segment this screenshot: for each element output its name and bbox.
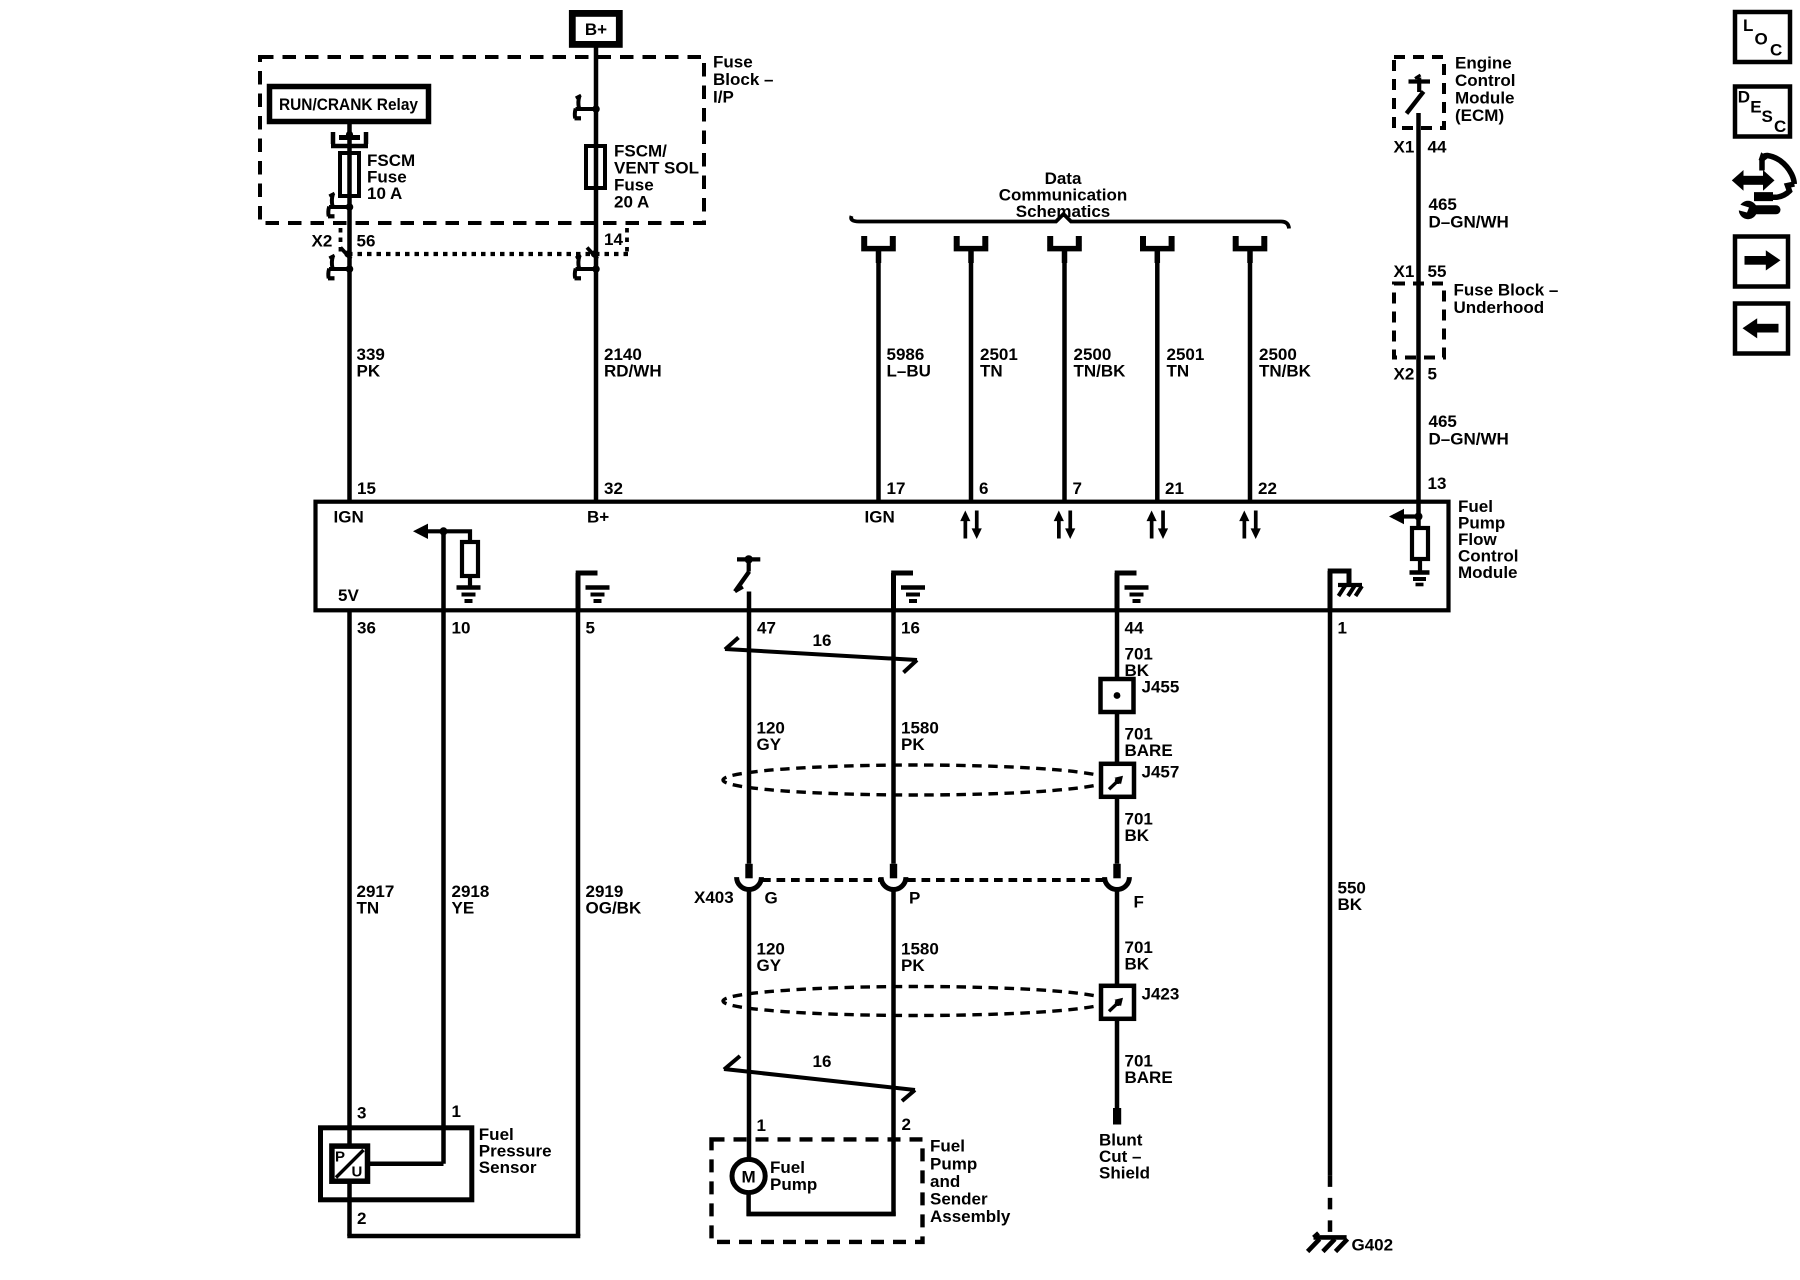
updown arrows pin 21 [1147,511,1169,540]
svg-text:P: P [335,1149,345,1166]
svg-text:BK: BK [1125,826,1150,845]
X403 connector F [1105,864,1130,890]
ground G402 [1308,1233,1348,1252]
svg-text:X2: X2 [312,232,333,251]
svg-text:Module: Module [1455,88,1515,107]
svg-text:44: 44 [1125,618,1144,637]
svg-text:P: P [909,889,920,908]
svg-text:M: M [742,1168,756,1187]
svg-text:6: 6 [979,479,988,498]
svg-text:S: S [1762,107,1773,126]
twisted pair ellipse (lower) [723,987,1108,1016]
pump internal bottom wire [747,1212,896,1217]
svg-text:X403: X403 [694,888,734,907]
svg-text:O: O [1755,30,1768,49]
svg-text:C: C [1774,117,1786,136]
svg-text:17: 17 [887,479,906,498]
svg-text:G402: G402 [1352,1236,1394,1255]
next arrow [1745,250,1781,270]
svg-text:Sender: Sender [930,1190,988,1209]
svg-text:F: F [1134,892,1144,911]
svg-text:J455: J455 [1142,678,1180,697]
svg-text:Shield: Shield [1099,1163,1150,1182]
svg-text:E: E [1750,97,1761,116]
wire 2501 TN (pin 6) [969,260,974,500]
internal pin 13 branch: wire + arrow + resistor + ground [1389,500,1423,528]
svg-text:1: 1 [1338,618,1347,637]
internal resistor (pin 13 branch) [1412,528,1428,559]
svg-text:and: and [930,1172,960,1191]
wire 701 BK (J457 to X403 F) [1115,797,1120,864]
svg-text:BARE: BARE [1125,741,1173,760]
wire 465 D-GN/WH (ECM to X1 55) [1416,113,1421,283]
svg-text:X1: X1 [1394,262,1415,281]
resistor stub to ground [1418,559,1422,571]
svg-text:PK: PK [357,362,381,381]
svg-text:(ECM): (ECM) [1455,106,1504,125]
LOC nav box [1735,12,1790,62]
internal ground pin 44 [1115,573,1137,611]
wire 550 BK dashed tail [1328,1175,1333,1232]
svg-text:TN: TN [357,899,380,918]
DESC letters [1738,88,1786,136]
ground (pin 13 branch) [1410,573,1430,585]
internal resistor (5V branch) [462,542,478,576]
svg-text:16: 16 [901,618,920,637]
data connector cup 3 [1047,236,1082,263]
terminal slash+hook wire A at X2 [341,248,352,260]
ECM internal switch [1407,75,1431,114]
svg-text:C: C [1770,41,1782,60]
svg-text:465: 465 [1429,412,1457,431]
X403 connector P [881,864,906,890]
svg-text:YE: YE [452,899,475,918]
svg-text:GY: GY [757,956,782,975]
wire 701 BK lower (X403 F to J423) [1115,891,1120,989]
resistor to ground stub [468,576,472,586]
pin 14 vertical dotted tick [625,228,629,253]
wire 2501 TN (pin 21) [1155,260,1160,500]
svg-text:16: 16 [813,631,832,650]
sensor pin 2 wire below P/U [347,1181,352,1236]
svg-text:10: 10 [452,618,471,637]
internal 5V reference branch: arrow + wire [413,524,470,611]
terminal hook below FSCM fuse [328,193,353,216]
svg-text:J457: J457 [1142,763,1180,782]
svg-text:44: 44 [1428,138,1447,157]
svg-text:RD/WH: RD/WH [604,362,662,381]
crossover 16 (lower) [724,1056,915,1101]
X2 vertical dotted tick [339,228,343,253]
pump motor to bottom wire [746,1193,751,1217]
relay contact cup [331,131,368,146]
svg-text:GY: GY [757,735,782,754]
svg-text:5: 5 [586,618,595,637]
data connector cup 4 [1140,236,1175,263]
svg-text:55: 55 [1428,262,1447,281]
prev arrow nav box [1735,304,1788,354]
wire 2140 RD/WH vertical (B+ to pin 32) [594,44,599,500]
svg-text:Fuse Block –: Fuse Block – [1454,281,1559,300]
next arrow nav box [1735,237,1788,287]
terminal slash+hook wire D at pin 14 [587,248,598,260]
svg-text:Pump: Pump [930,1154,977,1173]
svg-text:3: 3 [357,1103,366,1122]
shield splice J423 [1101,986,1134,1019]
connector X2 dotted line [348,252,628,256]
svg-text:TN: TN [980,362,1003,381]
svg-text:TN/BK: TN/BK [1259,362,1312,381]
wire 2918 YE (pin 10 to sensor pin 1) [441,611,446,1164]
wire 465 through underhood box [1416,283,1421,500]
ECM dashed box [1394,57,1444,128]
svg-text:RUN/CRANK Relay: RUN/CRANK Relay [279,95,418,114]
svg-text:20 A: 20 A [614,192,649,211]
svg-text:D: D [1738,88,1750,107]
wire 2500 TN/BK (pin 22) [1248,260,1253,500]
svg-text:2: 2 [902,1115,911,1134]
svg-text:Engine: Engine [1455,53,1512,72]
svg-text:15: 15 [357,479,376,498]
fuel pump motor M [732,1159,765,1192]
diagnostic jump icon [1732,152,1795,219]
wire 2919 OG/BK (pin 5 to sensor pin 2) [576,611,581,1236]
ground (5V branch) [457,588,481,602]
data connector cup 2 [954,236,989,263]
svg-text:I/P: I/P [713,88,734,107]
svg-text:5: 5 [1428,364,1437,383]
svg-text:B+: B+ [587,508,609,527]
svg-text:PK: PK [901,735,925,754]
sensor internal wire (pin 1 to P/U) [368,1162,444,1167]
svg-text:1: 1 [757,1116,766,1135]
data connector cup 1 [861,236,896,263]
internal ground pin 16 [891,573,913,611]
wire 2917 TN (pin 36 to sensor pin 3) [347,611,352,1146]
svg-text:TN: TN [1167,362,1190,381]
wire 701 BK (pin 44 to J455) [1115,611,1120,679]
prev arrow [1743,318,1779,338]
brace [851,214,1289,229]
svg-text:Block –: Block – [713,70,773,89]
svg-text:Schematics: Schematics [1016,202,1111,221]
svg-text:X1: X1 [1394,138,1415,157]
X403 connector G [737,864,762,890]
Fuel Pressure Sensor box [321,1128,472,1200]
internal ground pin 5 [576,573,598,611]
wire 2500 TN/BK (pin 7) [1062,260,1067,500]
svg-text:PK: PK [901,956,925,975]
updown arrows pin 6 [960,511,982,540]
svg-text:TN/BK: TN/BK [1074,362,1127,381]
svg-text:14: 14 [604,230,623,249]
svg-text:Assembly: Assembly [930,1207,1011,1226]
svg-text:B+: B+ [585,20,607,39]
svg-text:47: 47 [757,618,776,637]
svg-text:Sensor: Sensor [479,1158,537,1177]
svg-text:U: U [352,1164,363,1181]
RUN/CRANK Relay box [270,87,429,122]
wire 701 BARE (J423 to blunt cut) [1115,1019,1120,1108]
svg-text:32: 32 [604,479,623,498]
updown arrows pin 22 [1239,511,1261,540]
wire 120 GY lower (X403 G to pump 1) [747,891,752,1161]
svg-text:D–GN/WH: D–GN/WH [1429,213,1509,232]
LOC letters [1743,16,1782,59]
Fuel Pump Flow Control Module box [316,502,1449,611]
DESC nav box [1735,87,1790,137]
svg-text:L: L [1743,16,1753,35]
B+ power feed box [572,13,619,44]
twisted pair ellipse (upper) [723,765,1108,795]
svg-text:Module: Module [1458,563,1518,582]
Fuse Block I/P dashed box [260,57,704,223]
wire 5986 L-BU [876,260,881,500]
svg-text:16: 16 [813,1052,832,1071]
blunt cut terminal [1113,1108,1121,1125]
svg-text:BK: BK [1125,954,1150,973]
fuse FSCM 10A [340,153,359,196]
svg-text:D–GN/WH: D–GN/WH [1429,429,1509,448]
terminal hook on B+ wire [575,95,600,118]
svg-text:IGN: IGN [865,508,895,527]
wire 550 BK solid [1328,611,1333,1175]
svg-text:10 A: 10 A [367,184,402,203]
svg-text:22: 22 [1258,479,1277,498]
Fuel Pump and Sender Assembly dashed box [712,1139,923,1242]
crossover 16 (upper) [725,638,917,673]
bottom return wire (sensor pin 2 to wire 2919) [347,1234,580,1239]
wire 1580 PK lower (X403 P to pump 2) [891,891,896,1217]
svg-text:36: 36 [357,618,376,637]
wire 339 PK vertical (relay to pin 15) [347,124,352,500]
internal switch pin 47 [735,555,760,591]
updown arrows pin 7 [1054,511,1076,540]
svg-text:Underhood: Underhood [1454,298,1545,317]
P/U transducer box [332,1146,368,1181]
svg-text:BARE: BARE [1125,1068,1173,1087]
svg-text:1: 1 [452,1102,461,1121]
wire 120 GY upper (pin 47 to X403 G) [747,592,752,864]
wire 1580 PK upper (pin 16 to X403 P) [891,611,896,864]
svg-text:IGN: IGN [334,508,364,527]
svg-text:X2: X2 [1394,364,1415,383]
X403 dashed connector line [762,878,880,882]
wire 701 BARE (J455 to J457) [1115,712,1120,764]
svg-text:7: 7 [1073,479,1082,498]
svg-text:L–BU: L–BU [887,362,931,381]
svg-text:G: G [765,889,778,908]
svg-text:21: 21 [1165,479,1184,498]
fuse FSCM/VENT SOL 20A [586,146,605,188]
svg-text:5V: 5V [338,586,359,605]
svg-text:OG/BK: OG/BK [586,899,642,918]
data connector cup 5 [1233,236,1268,263]
svg-text:56: 56 [357,232,376,251]
svg-text:Control: Control [1455,71,1515,90]
svg-text:Pump: Pump [770,1175,817,1194]
svg-text:Fuel: Fuel [930,1137,965,1156]
splice J455 [1101,679,1134,712]
internal chassis ground pin 1 [1328,571,1362,611]
svg-text:J423: J423 [1142,985,1180,1004]
svg-text:13: 13 [1428,474,1447,493]
svg-text:BK: BK [1338,895,1363,914]
svg-text:465: 465 [1429,195,1457,214]
svg-text:Fuse: Fuse [713,53,753,72]
shield splice J457 [1101,764,1134,797]
svg-text:2: 2 [357,1209,366,1228]
Fuse Block Underhood dashed box [1394,284,1444,358]
